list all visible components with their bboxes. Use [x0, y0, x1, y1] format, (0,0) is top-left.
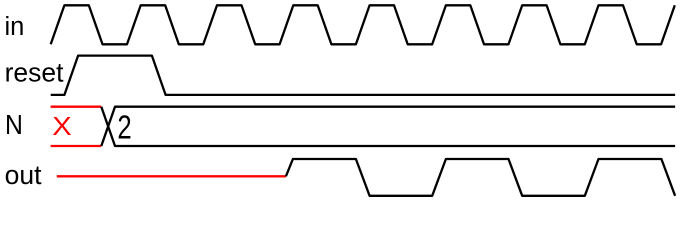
wire N bus crossing upper-to-lower [101, 107, 675, 146]
wire N bus unknown segment bottom (red) [51, 145, 102, 147]
svg-text:in: in [5, 13, 25, 41]
svg-text:out: out [5, 160, 42, 190]
wire out undefined (red) [57, 175, 286, 177]
wire out divided clock [286, 159, 675, 196]
wire in clock [51, 5, 675, 44]
svg-text:N: N [5, 109, 23, 141]
svg-text:reset: reset [5, 58, 65, 88]
svg-text:X: X [52, 111, 71, 140]
wire N bus unknown segment top (red) [51, 106, 102, 108]
wire reset pulse [51, 56, 675, 95]
svg-text:2: 2 [117, 110, 131, 147]
wire N bus crossing lower-to-upper [101, 107, 675, 146]
